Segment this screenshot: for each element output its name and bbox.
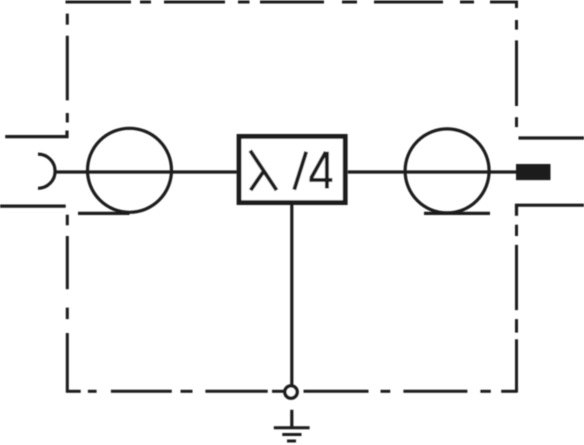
enclosure boundary bottom edge (dash-dot)	[66, 390, 517, 393]
left element bottom tangent stub	[78, 212, 130, 215]
series element left (circle, coax path)	[88, 128, 172, 212]
wire: lambda/4 box down to earth terminal	[290, 205, 293, 385]
output terminal (solid block)	[516, 164, 551, 180]
wire: lambda/4 box to right element and output terminal	[348, 170, 517, 173]
value label: lambda glyph	[250, 151, 276, 191]
ground symbol bar 3	[287, 440, 296, 443]
input port feed-through line top (left wall opening)	[5, 131, 67, 137]
ground symbol bar 2	[282, 433, 301, 436]
value label: slash of /4	[294, 152, 306, 190]
earth terminal node (open circle on boundary)	[285, 386, 297, 398]
ground symbol bar 1	[274, 426, 310, 429]
wire: input connector to left element and into lambda/4 box	[55, 170, 237, 173]
input coax connector (female socket arc)	[38, 154, 55, 188]
output port feed-through line bottom (right wall opening)	[517, 205, 584, 216]
output port feed-through line top (right wall opening)	[519, 136, 584, 139]
value label: digit 4	[309, 152, 332, 189]
input port feed-through line bottom (left wall opening)	[0, 205, 66, 208]
right element bottom tangent stub	[424, 212, 490, 215]
enclosure boundary left edge (dash-dot)	[66, 14, 69, 393]
wire: earth terminal to ground symbol	[290, 410, 293, 428]
enclosure boundary top edge (dash-dot)	[66, 1, 519, 4]
series element right (circle, coax path)	[405, 129, 489, 213]
quarter-wave shorting stub box (lambda/4)	[239, 136, 345, 202]
enclosure boundary right edge (dash-dot)	[515, 1, 518, 393]
